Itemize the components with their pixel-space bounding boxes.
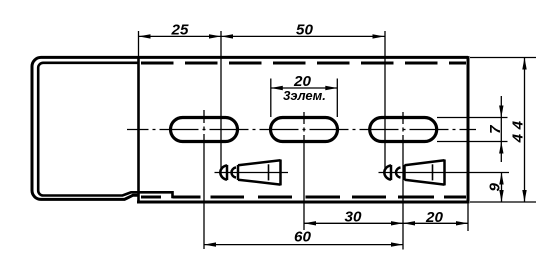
tab 1 inner chord: [237, 165, 240, 180]
dimension line 20 bottom: [403, 222, 468, 224]
tab 1 taper top edge: [238, 160, 281, 165]
extension line at fold for dim 25: [138, 31, 140, 58]
tab 2 inner arc: [396, 167, 401, 177]
arrow left of dim 25: [139, 34, 151, 38]
slot top extension line for dim 7: [437, 117, 508, 119]
svg-text:20: 20: [425, 209, 443, 226]
dimension line 44: [524, 58, 526, 203]
svg-text:60: 60: [294, 229, 311, 246]
slot 1: [171, 118, 238, 142]
dimension line 9: [501, 173, 503, 203]
tab 2 inner chord: [403, 165, 406, 180]
tab 1 inner arc: [231, 167, 236, 177]
tab 2 outer arc: [384, 165, 391, 179]
tab 2 taper top edge: [405, 160, 445, 165]
tab 2 right edge: [443, 160, 446, 186]
svg-text:50: 50: [296, 22, 313, 39]
tab 1 centerline: [215, 172, 289, 174]
svg-text:30: 30: [345, 209, 362, 226]
horizontal centerline through slots: [127, 129, 476, 131]
tab 2 extension line from top dims: [384, 31, 386, 168]
arrow right of dim 50: [373, 34, 385, 38]
svg-text:25: 25: [171, 22, 189, 39]
svg-text:9: 9: [487, 183, 504, 192]
tab 1 extension line from top dims: [220, 31, 222, 168]
body top edge: [41, 56, 468, 59]
left bracket outer outline: [32, 57, 140, 199]
extension lines for dim 20 (slot length): [270, 79, 272, 118]
dimension line 25/50: [139, 35, 385, 37]
tab 1 outer arc: [220, 165, 227, 179]
fold line (body left edge): [137, 58, 140, 204]
dim 7 upper arrow line: [500, 96, 502, 162]
tab 1 taper bottom edge: [238, 180, 281, 185]
tab 1 right edge: [279, 160, 282, 186]
arrows at shared point of 25/50: [209, 34, 221, 38]
svg-text:44: 44: [509, 116, 526, 143]
right edge extension below body: [467, 202, 469, 231]
tab 2 taper bottom edge: [405, 180, 445, 185]
dimension line 60: [204, 244, 403, 246]
tab 1 outer chord: [226, 165, 229, 180]
slot bottom extension line for dim 7: [437, 141, 508, 143]
svg-text:3элем.: 3элем.: [283, 88, 326, 103]
tab 2 inner tick: [432, 164, 434, 180]
top extension line for dim 44: [470, 57, 536, 59]
left bracket inner outline: [38, 63, 174, 197]
tab 2 outer chord: [390, 165, 393, 180]
body right edge: [467, 56, 470, 203]
dimension line 30: [304, 222, 403, 224]
slot 2 vertical centerline / extension to dim 30: [303, 112, 305, 230]
body bottom edge: [137, 201, 468, 204]
slot 2: [271, 118, 338, 142]
tab 2 centerline / extension for dim 9: [379, 172, 510, 174]
tab 1 inner tick: [268, 164, 270, 180]
top hidden dashed line: [141, 62, 466, 65]
bottom hidden dashed line: [141, 196, 466, 199]
dimension line 20 slot: [271, 87, 338, 89]
slot 3 vertical centerline / extension to dims: [402, 112, 404, 250]
slot 3: [370, 118, 437, 142]
bottom extension line for dims 44/9: [470, 201, 536, 203]
slot 1 vertical centerline / extension to dim 60: [203, 110, 205, 249]
